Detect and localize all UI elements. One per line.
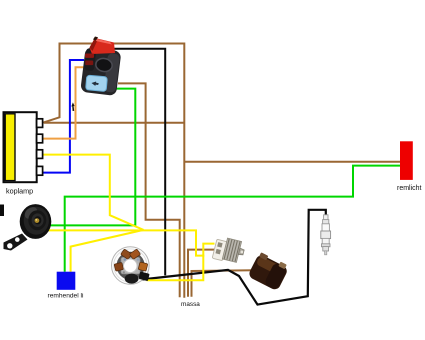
svg-text:remhendel li: remhendel li <box>48 293 84 300</box>
wire brown coil-to-massa <box>192 270 255 297</box>
svg-text:massa: massa <box>181 301 200 308</box>
stator / flywheel <box>112 247 150 285</box>
wire brown to brake light <box>184 161 401 163</box>
wire yellow headlamp branch <box>43 155 144 230</box>
wire green switch-to-horn <box>49 89 135 226</box>
wire green brakelever-to-brakelight <box>65 166 401 272</box>
wire yellow brakelever diagonal <box>71 230 144 272</box>
svg-text:koplamp: koplamp <box>6 187 33 196</box>
headlamp koplamp <box>4 112 43 182</box>
wire yellow main run to junction <box>144 230 204 255</box>
horn <box>4 204 52 250</box>
brake lever switch (blue square) remhendel li <box>57 272 76 290</box>
svg-text:remlicht: remlicht <box>397 185 422 192</box>
mouse cursor <box>71 102 74 111</box>
wire yellow to stator <box>147 255 204 281</box>
brake light remlicht <box>400 141 413 180</box>
switch (handlebar switch with red rocker and blue horn button) <box>80 37 121 97</box>
wire brown switch-to-massa <box>118 83 180 297</box>
wire brown regulator-to-massa <box>188 250 215 297</box>
wire brown headlamp-to-massa branch <box>44 122 184 124</box>
wire black stator-coil-sparkplug <box>141 210 326 305</box>
wire yellow horn branch <box>48 229 144 231</box>
wire yellow to regulator <box>203 244 214 257</box>
left edge bracket mark <box>0 205 4 217</box>
ignition coil <box>247 251 290 291</box>
regulator / rectifier <box>212 236 246 266</box>
spark plug <box>321 215 331 255</box>
wire blue switch-to-headlamp <box>43 60 85 173</box>
wire orange switch-to-headlamp <box>43 67 85 138</box>
wire brown headlamp-to-top-loop <box>43 44 185 298</box>
wire black kill-switch <box>103 49 165 276</box>
